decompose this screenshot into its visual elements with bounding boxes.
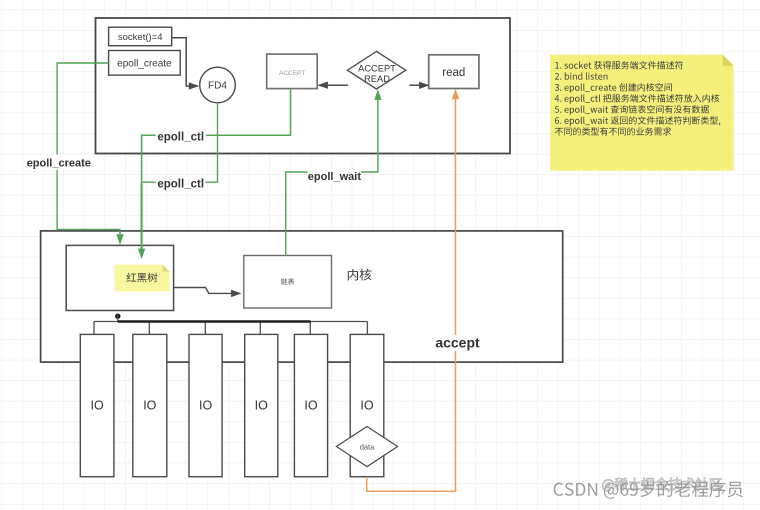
- note text line 3: [555, 83, 672, 93]
- box IO4: [245, 334, 278, 476]
- diamond data: [336, 427, 397, 467]
- wire epoll_create (green): [57, 63, 120, 243]
- label epoll_wait: [307, 169, 361, 183]
- wire accept (orange): [367, 90, 456, 491]
- note text line 7: [555, 127, 671, 135]
- label 内核: [348, 269, 372, 281]
- svg-text:ACCEPT: ACCEPT: [358, 64, 396, 74]
- svg-text:IO: IO: [255, 399, 268, 413]
- label epoll_ctl (upper): [156, 130, 206, 144]
- svg-text:epoll_ctl: epoll_ctl: [157, 178, 204, 190]
- note text line 6: [555, 116, 720, 126]
- box ACCEPT: [267, 54, 318, 89]
- box read: [429, 55, 479, 89]
- svg-text:IO: IO: [360, 399, 373, 413]
- svg-text:read: read: [442, 67, 465, 79]
- svg-text:data: data: [360, 442, 375, 451]
- box IO3: [189, 334, 222, 476]
- wire red-black-tree to linked list: [174, 288, 240, 294]
- svg-text:ACCEPT: ACCEPT: [279, 70, 305, 77]
- svg-text:IO: IO: [304, 399, 317, 413]
- note 红黑树 (red-black tree): [114, 265, 169, 292]
- note text line 4: [555, 94, 720, 104]
- box IO1: [80, 334, 114, 476]
- wire epoll_wait (green): [286, 91, 378, 256]
- label epoll_create: [28, 155, 90, 171]
- box 链表 (linked list): [244, 256, 332, 309]
- watermark juejin outline: [602, 478, 721, 492]
- svg-text:socket()=4: socket()=4: [118, 32, 163, 43]
- note numbered steps (yellow sticky): [550, 55, 734, 171]
- wire epoll_ctl from ACCEPT (green): [142, 89, 291, 258]
- svg-text:accept: accept: [435, 334, 480, 350]
- svg-text:epoll_create: epoll_create: [27, 157, 91, 169]
- svg-text:FD4: FD4: [208, 81, 227, 92]
- box IO2: [133, 334, 167, 476]
- junction dot at red-black-tree bottom: [115, 314, 120, 319]
- bus wire red-black-tree to IO boxes: [94, 313, 367, 334]
- label accept: [432, 335, 483, 351]
- svg-text:IO: IO: [199, 399, 212, 413]
- box IO6: [350, 334, 384, 476]
- wire diamond to ACCEPT box: [319, 84, 348, 86]
- kernel container box 内核: [41, 231, 563, 362]
- svg-text:READ: READ: [364, 74, 390, 84]
- box socket()=4: [109, 27, 172, 46]
- watermark CSDN: [554, 481, 743, 499]
- wire diamond to read box: [410, 84, 429, 86]
- svg-text:IO: IO: [143, 399, 156, 413]
- top flow container box: [96, 18, 511, 154]
- svg-text:epoll_wait: epoll_wait: [308, 171, 362, 183]
- wire socket()=4 to FD4: [172, 38, 198, 86]
- note text line 1: [555, 61, 683, 69]
- circle FD4: [200, 67, 236, 103]
- label epoll_ctl (lower): [156, 177, 206, 191]
- diamond ACCEPT READ: [347, 51, 405, 89]
- svg-text:epoll_ctl: epoll_ctl: [157, 132, 204, 144]
- note text line 2: [555, 72, 608, 79]
- note text line 5: [555, 105, 709, 115]
- box epoll_create: [109, 51, 181, 76]
- svg-text:IO: IO: [90, 399, 103, 413]
- svg-text:epoll_create: epoll_create: [117, 58, 172, 69]
- wire epoll_ctl from FD4 (green): [142, 103, 218, 200]
- box IO5: [294, 334, 327, 476]
- box red-black-tree container: [66, 245, 173, 310]
